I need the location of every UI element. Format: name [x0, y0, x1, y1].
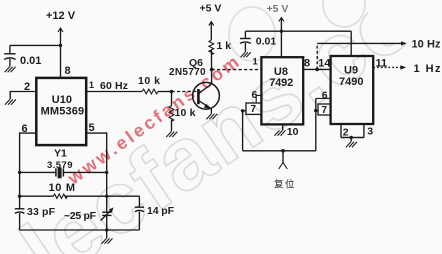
svg-text:3.579: 3.579 — [47, 160, 73, 171]
svg-text:14 pF: 14 pF — [147, 205, 175, 217]
svg-text:7: 7 — [251, 104, 257, 115]
svg-text:MM5369: MM5369 — [41, 105, 85, 117]
svg-text:1 Hz: 1 Hz — [414, 63, 442, 75]
IC U9 7490 — [331, 56, 374, 124]
wire U8 pin 8 to U9 pin 14 — [303, 68, 330, 70]
svg-text:10: 10 — [287, 126, 299, 138]
resistor 10k (series, 60Hz to base) — [142, 89, 158, 94]
capacitor C 0.01 (U10 bypass) — [4, 45, 15, 66]
svg-text:10 M: 10 M — [49, 182, 76, 194]
transistor Q6 2N5770 — [193, 82, 220, 109]
node pin14 junction — [315, 68, 319, 72]
power +5V supply arrow (rail) — [279, 18, 284, 32]
ground (bottom rail) — [102, 238, 113, 243]
wire +12V rail to bypass cap — [10, 44, 61, 46]
svg-text:1: 1 — [89, 80, 94, 90]
svg-text:14: 14 — [318, 57, 331, 69]
node +12V junction dot — [59, 44, 62, 47]
wire junction to Q6 base (dashed) — [172, 91, 199, 93]
svg-text:60 Hz: 60 Hz — [100, 80, 128, 92]
svg-text:7490: 7490 — [339, 76, 364, 88]
svg-text:8: 8 — [304, 57, 310, 69]
wire bottom rail — [20, 229, 140, 231]
wire bottom to ground — [106, 230, 108, 238]
resistor 10k (base to ground) — [169, 92, 174, 132]
svg-text:+12 V: +12 V — [46, 10, 76, 22]
svg-text:6: 6 — [22, 123, 28, 135]
ground (U9 pins 2,3) — [346, 142, 357, 147]
svg-text:0.01: 0.01 — [20, 55, 41, 67]
wire pin 1 output 60 Hz — [86, 91, 142, 93]
svg-text:1: 1 — [253, 56, 259, 67]
wire U8 pin 10 to ground — [282, 124, 284, 130]
wire pin 2 to ground — [10, 92, 36, 100]
wire reset rail — [243, 150, 316, 152]
svg-text:1 k: 1 k — [217, 40, 232, 52]
svg-text:33 pF: 33 pF — [27, 206, 56, 218]
svg-text:2: 2 — [24, 81, 30, 93]
ground (U8 pin 10) — [275, 130, 286, 135]
IC U8 7492 — [261, 57, 303, 124]
svg-text:+5 V: +5 V — [267, 3, 289, 15]
svg-text:7492: 7492 — [269, 77, 293, 89]
svg-text:7: 7 — [322, 105, 328, 116]
ground (pin 2) — [5, 99, 16, 104]
wire U10 pin 6 down left rail — [20, 133, 37, 209]
svg-text:U9: U9 — [344, 64, 358, 76]
svg-text:2: 2 — [343, 126, 349, 138]
power +5V supply (Q6) — [209, 22, 214, 41]
svg-text:5: 5 — [89, 122, 95, 134]
wire collector to U8 pin 1 (dashed) — [212, 69, 262, 71]
wire resistor to base node — [158, 91, 172, 93]
power +12V supply — [58, 28, 63, 78]
svg-text:U10: U10 — [52, 94, 72, 106]
capacitor 14 pF — [135, 196, 144, 230]
U8 reset pins 6 and 7 — [241, 95, 261, 150]
ground (0.01 cap left) — [5, 67, 16, 72]
U9 reset pins 6 and 7 — [314, 98, 331, 150]
capacitor 25 pF variable — [101, 207, 114, 230]
wire junction up to 10Hz line (dashed) — [316, 43, 318, 69]
svg-text:3: 3 — [367, 126, 373, 138]
wire collector up to 1k — [211, 70, 213, 84]
svg-text:10 k: 10 k — [138, 75, 160, 87]
capacitor 0.01 (logic bypass) — [240, 31, 251, 52]
svg-text:~25 pF: ~25 pF — [64, 210, 97, 222]
svg-text:复位: 复位 — [274, 179, 296, 191]
ground (Q6 emitter) — [206, 114, 217, 119]
svg-text:6: 6 — [322, 89, 328, 101]
svg-text:11: 11 — [376, 58, 388, 70]
IC U10 MM5369 — [36, 78, 86, 145]
node +5V rail dot — [280, 30, 283, 33]
crystal Y1 3.579 MHz — [20, 167, 107, 178]
svg-text:6: 6 — [252, 89, 258, 101]
wire 1 Hz output (dotted) — [373, 66, 400, 68]
svg-text:10 k: 10 k — [175, 107, 196, 119]
reset input arrow — [279, 151, 288, 169]
resistor 10M — [20, 194, 140, 198]
U9 pins 2,3 to ground — [341, 124, 364, 142]
ground (10k) — [166, 132, 177, 137]
capacitor 33 pF — [15, 209, 25, 230]
ground (0.01 logic bypass) — [241, 52, 251, 57]
wire emitter to ground — [210, 109, 212, 114]
svg-text:Y1: Y1 — [54, 148, 67, 160]
wire rail to U9 VCC — [350, 31, 352, 56]
resistor 1k — [209, 40, 214, 69]
svg-text:8: 8 — [65, 65, 71, 77]
svg-text:2N5770: 2N5770 — [169, 67, 206, 78]
wire 10 Hz output — [317, 42, 401, 44]
node base junction — [170, 90, 174, 94]
svg-text:+5 V: +5 V — [200, 2, 222, 14]
wire +5V rail — [245, 30, 351, 32]
svg-text:10 Hz: 10 Hz — [412, 39, 442, 51]
wire rail to U8 VCC — [280, 31, 282, 57]
node collector junction — [210, 68, 214, 72]
wire U10 pin 5 down right rail — [86, 133, 107, 212]
svg-text:0.01: 0.01 — [256, 35, 277, 47]
node reset junction — [281, 149, 285, 153]
